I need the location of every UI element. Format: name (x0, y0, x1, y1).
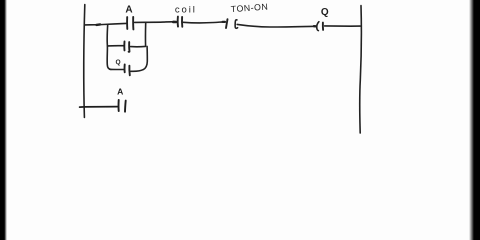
branch1 wire: left vertical to contact (108, 45, 124, 47)
contact COIL left plate (177, 17, 179, 27)
wire rung1: Q coil to right rail (325, 25, 361, 27)
contact A (rung 1) left plate (126, 17, 128, 29)
blob at Q coil left (314, 25, 316, 28)
svg-text:A: A (117, 86, 123, 96)
svg-text:Q: Q (321, 7, 329, 18)
branch2 wire: corner to contact (111, 68, 124, 70)
contact TON-ON right plate (235, 20, 237, 28)
right screen edge bar (469, 0, 480, 240)
right power rail (360, 6, 362, 133)
wire rung1: COIL to TON-ON contact (183, 22, 225, 23)
branch1 contact left plate (123, 42, 125, 51)
svg-text:coil: coil (175, 4, 197, 15)
Q coil left plate (paren) (317, 22, 319, 31)
branch right vertical upper (rung1 to branch1) (144, 23, 146, 47)
contact COIL right plate (181, 17, 183, 27)
contact A (rung 2) left plate (118, 100, 120, 111)
branch2 contact Q left plate (124, 65, 126, 73)
Q coil right plate (322, 23, 324, 30)
left power rail (84, 5, 85, 118)
rung 2 wire: left rail to contact (80, 106, 118, 109)
contact A (rung 2) right plate (124, 101, 127, 112)
svg-text:A: A (125, 5, 132, 16)
branch2 contact Q right plate (128, 66, 130, 76)
left screen edge bar (0, 0, 7, 240)
wire rung1: contact A to contact COIL (135, 21, 176, 24)
junction tick on rung1 wire (97, 23, 101, 26)
branch left vertical (node from rung1 down) (107, 25, 111, 70)
contact A (rung 1) right plate (132, 17, 134, 30)
tick at TON-ON left plate (223, 21, 225, 23)
branch1 wire: contact to right vertical (131, 45, 146, 47)
contact TON-ON left plate (226, 19, 228, 28)
wire rung1: left rail to contact A (84, 23, 126, 25)
svg-text:Q: Q (116, 59, 121, 66)
wire rung1: TON-ON to Q coil (237, 24, 315, 27)
branch1 contact right plate (128, 42, 131, 52)
blob at COIL left plate (173, 21, 176, 24)
branch2 wire: contact to right vertical (rounded corner up) (131, 46, 148, 71)
